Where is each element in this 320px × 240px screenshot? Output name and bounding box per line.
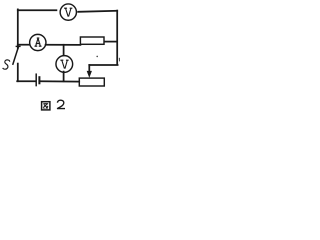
wire stub (voltmeter V2 bottom to bottom wire junction) — [63, 72, 65, 82]
scan speck near resistor — [96, 56, 98, 58]
rheostat wiper arrow head — [87, 71, 91, 77]
wire top (left segment, from top-left corner to voltmeter V1) — [18, 9, 57, 11]
wire left rail (lower section, switch to bottom-left corner) — [17, 64, 19, 82]
wire (down leg to rheostat wiper arrow) — [88, 65, 90, 72]
battery cell (short plate, right) — [38, 77, 40, 83]
resistor R1 — [80, 37, 104, 44]
scan speck right edge — [118, 58, 120, 62]
battery cell (long plate, left) — [35, 74, 37, 85]
wire right rail (top-right corner down to lower corner) — [116, 11, 118, 65]
caption text 2 — [57, 100, 65, 108]
wire middle (left rail to ammeter) — [18, 44, 30, 46]
wire bottom (battery to rheostat, through V2 junction) — [40, 80, 79, 82]
wire middle (ammeter to resistor R1, with junction at node to V2) — [46, 44, 81, 46]
wire (resistor R1 right side to right rail) — [104, 41, 116, 43]
ammeter A — [30, 34, 46, 50]
wire left rail (top-left corner down to switch) — [17, 9, 19, 48]
voltmeter V1 — [60, 4, 76, 20]
voltmeter V2 — [56, 56, 73, 73]
switch S (top contact tick) — [16, 45, 20, 47]
wire (right rail lower corner going left) — [89, 64, 117, 66]
rheostat R2 — [79, 78, 104, 86]
switch label S — [3, 60, 10, 69]
caption character 图 (drawn) — [42, 102, 50, 110]
switch S (open blade) — [13, 47, 19, 64]
wire stub (node on middle wire down to voltmeter V2 top) — [63, 45, 65, 56]
wire top (right segment, from voltmeter V1 to top-right corner) — [78, 11, 117, 12]
wire bottom (bottom-left corner to battery) — [17, 80, 35, 82]
